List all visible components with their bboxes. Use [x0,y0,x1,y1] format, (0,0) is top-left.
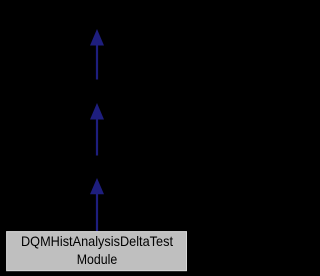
node box DQMHistAnalysisDeltaTestModule [7,232,187,271]
svg-text:DQMHistAnalysisDeltaTest: DQMHistAnalysisDeltaTest [21,234,173,249]
inheritance graph: DQMHistAnalysisDeltaTestModule [0,0,193,276]
svg-text:Module: Module [77,252,118,267]
arrow 3 (bottom inheritance edge) [90,178,104,232]
arrow 1 (top inheritance edge) [90,29,104,80]
arrow 2 (middle inheritance edge) [90,103,104,156]
